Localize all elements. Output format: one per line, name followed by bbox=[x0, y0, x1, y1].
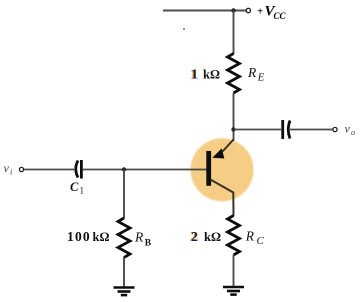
wire RC to ground bbox=[233, 255, 235, 287]
terminal vi open circle bbox=[19, 167, 23, 171]
svg-text:E: E bbox=[257, 73, 265, 84]
svg-text:v: v bbox=[4, 161, 10, 175]
wire node to output capacitor bbox=[234, 129, 282, 131]
stray speck bbox=[183, 28, 185, 30]
svg-text:2: 2 bbox=[191, 229, 198, 244]
capacitor output right plate (curved) bbox=[288, 121, 290, 139]
wire capacitor to vo bbox=[290, 129, 333, 131]
wire top horizontal to +VCC bbox=[163, 10, 246, 12]
svg-text:R: R bbox=[247, 65, 257, 80]
svg-text:C: C bbox=[257, 235, 265, 247]
node emitter/output bbox=[231, 127, 235, 131]
node junction top bbox=[231, 8, 235, 12]
svg-text:v: v bbox=[345, 122, 351, 136]
transistor collector lead diagonal bbox=[211, 180, 234, 216]
wire vi to C1 bbox=[24, 169, 74, 171]
svg-text:kΩ: kΩ bbox=[203, 68, 220, 82]
wire VCC to RE bbox=[233, 11, 235, 55]
node base junction bbox=[122, 167, 126, 171]
svg-text:+: + bbox=[257, 6, 263, 18]
svg-text:i: i bbox=[10, 168, 12, 177]
svg-text:C: C bbox=[70, 180, 79, 194]
svg-text:CC: CC bbox=[274, 11, 287, 21]
transistor emitter arrow (PNP, points into base) bbox=[212, 148, 224, 158]
transistor emitter lead diagonal bbox=[223, 140, 234, 152]
capacitor C1 left plate (curved) bbox=[76, 161, 78, 178]
terminal +VCC open circle bbox=[246, 8, 250, 12]
capacitor output left plate bbox=[281, 120, 284, 139]
svg-text:1: 1 bbox=[191, 67, 198, 82]
transistor Q1 base bar bbox=[206, 151, 211, 186]
resistor RE bbox=[228, 54, 240, 94]
svg-text:R: R bbox=[134, 230, 144, 245]
ground RB bbox=[114, 288, 135, 296]
svg-text:100: 100 bbox=[67, 229, 91, 244]
capacitor C1 right plate bbox=[80, 160, 83, 179]
wire RE to node bbox=[233, 93, 235, 141]
svg-text:1: 1 bbox=[80, 186, 85, 196]
svg-text:kΩ: kΩ bbox=[204, 230, 221, 244]
transistor Q1 highlight circle bbox=[191, 138, 254, 201]
svg-text:B: B bbox=[145, 239, 152, 249]
wire base node to RB bbox=[123, 170, 125, 219]
ground RC bbox=[223, 287, 244, 295]
wire RB to ground bbox=[123, 257, 125, 288]
resistor RB bbox=[118, 218, 130, 258]
resistor RC bbox=[228, 216, 240, 256]
svg-text:o: o bbox=[351, 128, 355, 137]
svg-text:R: R bbox=[245, 229, 255, 244]
terminal vo open circle bbox=[333, 127, 337, 131]
svg-text:kΩ: kΩ bbox=[93, 230, 110, 244]
wire C1 to base node bbox=[83, 169, 208, 171]
